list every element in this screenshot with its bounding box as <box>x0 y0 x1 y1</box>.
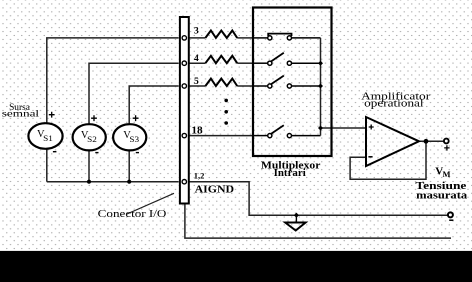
VS1 plus polarity <box>49 112 55 118</box>
pin label 5 <box>194 77 199 87</box>
wire VS1 top to pin 3 <box>47 38 179 123</box>
wire resistor to multiplexor row 4 <box>237 62 253 64</box>
svg-text:operational: operational <box>364 98 423 110</box>
resistor row 4 <box>205 56 237 63</box>
ground symbol <box>285 215 305 230</box>
pin 4 <box>182 61 186 65</box>
svg-text:1,2: 1,2 <box>194 170 205 180</box>
wire VS3 bottom to AIGND rail <box>128 150 130 181</box>
multiplexor box U1 <box>253 8 332 157</box>
pin label 1,2 <box>194 170 205 180</box>
wire op-amp feedback loop <box>350 141 426 179</box>
resistor row 3 <box>205 31 237 38</box>
svg-text:18: 18 <box>191 126 202 137</box>
VS1 minus polarity <box>53 151 57 153</box>
VS2 plus polarity <box>91 115 97 121</box>
svg-text:3: 3 <box>194 27 199 37</box>
switch S5 (row 5, open) <box>253 76 321 89</box>
label Tensiune masurata <box>415 181 468 202</box>
junction op-amp output <box>424 139 429 144</box>
resistor row 5 <box>205 79 237 86</box>
pin 3 <box>182 36 186 40</box>
label Conector I/O <box>98 208 167 220</box>
ellipsis dots between connector and multiplexor <box>224 99 228 125</box>
svg-text:M: M <box>443 169 451 179</box>
wire pin 5 to resistor <box>189 85 206 87</box>
svg-text:AIGND: AIGND <box>195 184 235 195</box>
multiplexor output bus <box>320 38 322 136</box>
label Sursa semnal <box>2 103 40 120</box>
junction VS2-rail <box>87 180 91 184</box>
junction VS3-rail <box>127 180 131 184</box>
switch S3 (row 3, closed) <box>253 34 321 40</box>
svg-text:S2: S2 <box>87 135 97 144</box>
wire connector shield to bottom rail <box>185 204 451 239</box>
source VS3 <box>113 124 146 150</box>
pin label 4 <box>194 54 199 64</box>
wire AIGND pin to ground rail <box>189 182 449 216</box>
svg-text:5: 5 <box>194 77 199 87</box>
wire op-amp output to terminal <box>419 140 444 142</box>
svg-text:Conector I/O: Conector I/O <box>98 208 167 220</box>
label Amplificator operational <box>361 91 430 110</box>
label + at VM terminal <box>444 145 449 150</box>
label - at minus terminal <box>449 219 453 221</box>
junction ground rail <box>294 213 299 218</box>
connector I/O bar <box>180 17 189 204</box>
black footer band <box>0 251 472 282</box>
wire pin 3 to resistor <box>189 37 206 39</box>
pin 18 <box>182 133 186 137</box>
source VS1 <box>28 123 62 149</box>
VS2 minus polarity <box>95 152 98 154</box>
op-amp U2 <box>366 117 419 166</box>
net label AIGND <box>195 184 235 195</box>
source VS2 <box>73 124 106 150</box>
wire VS1 bottom to AIGND rail <box>46 149 48 182</box>
wire multiplexor output to op-amp + input <box>321 127 367 129</box>
pointer line Conector I/O <box>126 193 174 214</box>
switch S18 (row 18, open) <box>253 125 321 138</box>
svg-text:masurata: masurata <box>416 190 468 201</box>
wire pin 18 to multiplexor row 18 <box>189 135 253 137</box>
junction bus op-amp tap <box>318 126 323 131</box>
junction bus row 4 <box>318 61 323 66</box>
pin label 18 <box>191 126 202 137</box>
pin 1,2 AIGND <box>182 180 186 184</box>
wire pin 4 to resistor <box>189 62 206 64</box>
junction bus row 5 <box>318 84 323 89</box>
switch S4 (row 4, open) <box>253 53 321 66</box>
svg-text:semnal: semnal <box>2 109 40 119</box>
terminal VM plus (open circle) <box>444 139 449 144</box>
wire VS2 top to pin 4 <box>89 63 179 124</box>
pin 5 <box>182 84 186 88</box>
svg-text:S3: S3 <box>129 135 139 144</box>
svg-text:4: 4 <box>194 54 199 64</box>
wire VS2 bottom to AIGND rail <box>88 150 90 181</box>
wire resistor to multiplexor row 5 <box>237 85 253 87</box>
node label VM <box>435 165 450 178</box>
wire resistor to multiplexor row 3 <box>237 37 253 39</box>
svg-text:Intrari: Intrari <box>274 168 306 179</box>
VS3 minus polarity <box>136 152 139 154</box>
pin label 3 <box>194 27 199 37</box>
label Multiplexor Intrari <box>261 159 321 179</box>
VS3 plus polarity <box>133 115 139 121</box>
terminal minus (open circle) <box>448 212 453 217</box>
svg-text:S1: S1 <box>43 134 53 143</box>
wire VS3 top to pin 5 <box>129 86 179 124</box>
wire AIGND rail to connector pin 1,2 <box>47 181 179 183</box>
